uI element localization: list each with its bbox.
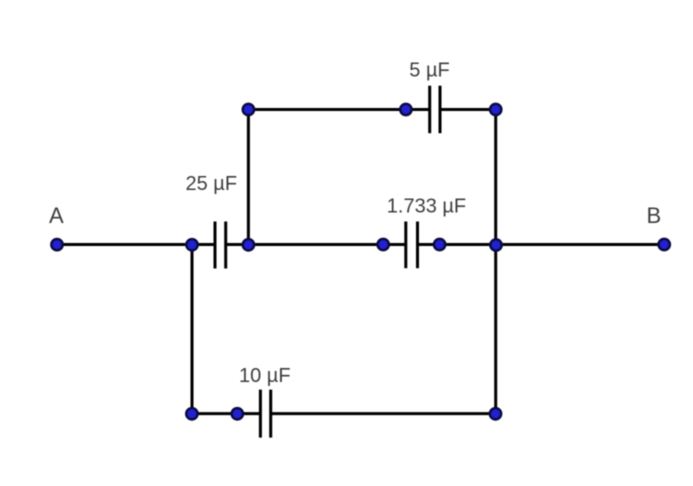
wire left junction to C1 left plate xyxy=(192,243,215,246)
svg-text:A: A xyxy=(49,203,64,228)
node before C2 xyxy=(400,104,411,115)
wire node before C3 to C3 left plate xyxy=(383,243,406,246)
svg-text:10 µF: 10 µF xyxy=(239,365,291,387)
node right junction xyxy=(490,239,501,250)
svg-text:1.733 µF: 1.733 µF xyxy=(387,196,466,218)
capacitor C2 5 µF plates xyxy=(430,86,440,134)
node before C4 xyxy=(232,408,243,419)
capacitor C1 25 µF plates xyxy=(215,222,226,269)
svg-text:5 µF: 5 µF xyxy=(409,59,449,81)
wire vertical node after C1 up to top-left corner xyxy=(247,110,250,245)
wire node before C4 to C4 left plate xyxy=(237,412,260,415)
wire C4 right plate to bottom-right corner xyxy=(271,412,496,415)
node B terminal xyxy=(659,239,670,250)
wire A to left junction xyxy=(57,243,192,246)
svg-text:B: B xyxy=(647,203,662,228)
node top-right corner xyxy=(490,104,501,115)
svg-text:25 µF: 25 µF xyxy=(186,173,238,195)
node after C1 xyxy=(243,239,254,250)
node left junction xyxy=(186,239,197,250)
capacitor C3 1.733 µF plates xyxy=(406,222,418,269)
node top-left corner xyxy=(243,104,254,115)
node before C3 xyxy=(378,239,389,250)
node after C3 xyxy=(434,239,445,250)
wire node before C2 to C2 left plate xyxy=(406,108,430,111)
wire right junction to B xyxy=(496,243,664,246)
node A terminal xyxy=(51,239,62,250)
wire C3 right plate to right junction xyxy=(418,243,497,246)
wire right vertical from top-right corner through junction to bottom-right xyxy=(494,110,497,414)
wire top-left corner to node before C2 xyxy=(248,108,406,111)
wire left vertical from left junction down to bottom-left corner xyxy=(191,245,194,414)
wire node after C1 to node before C3 xyxy=(248,243,383,246)
capacitor C4 10 µF plates xyxy=(260,390,270,438)
node bottom-left corner xyxy=(186,408,197,419)
node bottom-right corner xyxy=(490,408,501,419)
wire bottom-left corner to node before C4 xyxy=(192,412,237,415)
wire C2 right plate to top-right corner xyxy=(440,108,496,111)
wire C1 right plate to node after C1 xyxy=(226,243,249,246)
